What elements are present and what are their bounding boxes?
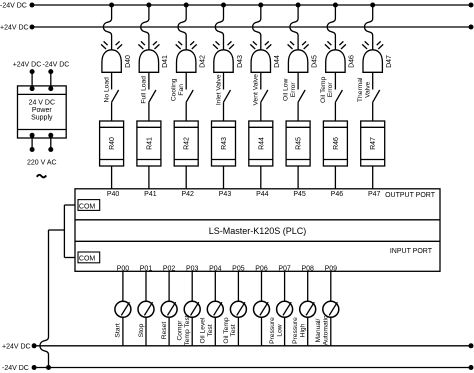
svg-text:P42: P42 [181, 191, 194, 198]
resistor R46 [323, 121, 347, 166]
svg-text:Low: Low [276, 324, 283, 336]
svg-text:Pressure: Pressure [292, 317, 299, 344]
wire: -24V rail to lamp D44, hops over +24V rail [253, 5, 261, 50]
node: -24V rail tap for D43 [221, 3, 226, 8]
svg-text:Cooling: Cooling [171, 78, 178, 101]
pushbutton S3: Compr Temp Test [177, 301, 201, 345]
svg-text:Oil Temp: Oil Temp [223, 317, 230, 344]
svg-text:R47: R47 [370, 137, 377, 150]
pin label P05 [232, 265, 245, 272]
svg-text:D40: D40 [125, 55, 132, 68]
pin label P41 [144, 191, 157, 198]
svg-text:No Load: No Load [103, 77, 110, 103]
svg-text:P04: P04 [209, 265, 222, 272]
lamp D46 [325, 41, 356, 72]
svg-text:Vent Valve: Vent Valve [253, 74, 260, 106]
wire: PLC pin P06 to pushbutton [261, 271, 263, 301]
switch: Oil Temp Error (NO contact) [320, 76, 343, 103]
node: -24V rail tap for D41 [146, 3, 151, 8]
wire: pushbutton to +24V rail [122, 317, 124, 346]
wire: switch to resistor R40 [111, 102, 113, 121]
resistor R47 [361, 121, 385, 166]
node: -24V rail tap for D42 [184, 3, 189, 8]
wire: COM (input) stub [64, 257, 75, 259]
svg-text:P43: P43 [219, 191, 232, 198]
wire: resistor R42 to PLC pin P42 [185, 166, 187, 189]
svg-text:R44: R44 [258, 137, 265, 150]
svg-text:Pressure: Pressure [269, 317, 276, 344]
PLC U1: LS-Master-K120S [75, 189, 440, 271]
pin label P42 [181, 191, 194, 198]
svg-text:Error: Error [290, 82, 297, 98]
wire: PLC pin P08 to pushbutton [307, 271, 309, 301]
wire: pushbutton to +24V rail [191, 317, 193, 346]
wire: PLC pin P03 to pushbutton [191, 271, 193, 301]
wire: switch to resistor R45 [297, 102, 299, 121]
svg-text:D42: D42 [200, 55, 207, 68]
svg-text:Stop: Stop [138, 323, 145, 337]
wire: -24V rail to lamp D46, hops over +24V rail [327, 5, 335, 50]
switch: Cooling Fan (NO contact) [171, 78, 194, 102]
svg-text:Inlet Valve: Inlet Valve [215, 74, 222, 105]
svg-text:Start: Start [115, 323, 122, 337]
svg-text:P44: P44 [256, 191, 269, 198]
wire: switch to resistor R41 [148, 102, 150, 121]
svg-text:Test: Test [230, 324, 237, 336]
svg-text:R42: R42 [184, 137, 191, 150]
pushbutton S2: Reset [161, 301, 177, 339]
wire: lamp D42 to switch [185, 72, 187, 89]
wire: resistor R45 to PLC pin P45 [297, 166, 299, 189]
wire: pushbutton to +24V rail [261, 317, 263, 346]
svg-text:Oil Low: Oil Low [283, 78, 290, 100]
svg-text:Reset: Reset [161, 322, 168, 340]
wire: COM bracket vertical [63, 205, 65, 258]
svg-text:P01: P01 [140, 265, 153, 272]
svg-text:P06: P06 [255, 265, 268, 272]
wire: pushbutton to +24V rail [168, 317, 170, 346]
wire: switch to resistor R46 [334, 102, 336, 121]
wire: pushbutton to +24V rail [145, 317, 147, 346]
svg-text:Power: Power [32, 107, 53, 114]
pushbutton S5: Oil Temp Test [223, 301, 247, 343]
resistor R45 [286, 121, 310, 166]
svg-text:Oil Temp: Oil Temp [320, 76, 327, 103]
net +24V DC (bottom rail) [2, 343, 474, 350]
pin label P40 [107, 191, 120, 198]
svg-text:220 V AC: 220 V AC [27, 160, 57, 167]
wire: PLC pin P07 to pushbutton [284, 271, 286, 301]
pushbutton S8: Pressure High [292, 301, 316, 344]
switch: Oil Low Error (NO contact) [283, 78, 306, 102]
svg-text:Supply: Supply [31, 114, 53, 121]
wire: resistor R47 to PLC pin P47 [372, 166, 374, 189]
wire: PLC pin P01 to pushbutton [145, 271, 147, 301]
wire: resistor R46 to PLC pin P46 [334, 166, 336, 189]
wire: pushbutton to +24V rail [214, 317, 216, 346]
wire: switch to resistor R42 [185, 102, 187, 121]
wire: switch to resistor R47 [372, 102, 374, 121]
net -24V DC (top rail) [0, 3, 474, 10]
label INPUT PORT [390, 248, 433, 255]
svg-text:Valve: Valve [365, 81, 372, 98]
lamp D42 [176, 41, 207, 72]
svg-text:Error: Error [327, 82, 334, 98]
svg-text:P45: P45 [293, 191, 306, 198]
pin label P08 [301, 265, 314, 272]
pin label P07 [278, 265, 291, 272]
pushbutton S4: Oil Level Test [200, 301, 224, 343]
wire: -24V rail to lamp D40, hops over +24V rail [103, 5, 111, 50]
svg-text:Fan: Fan [178, 84, 185, 96]
wire: lamp D47 to switch [372, 72, 374, 89]
svg-text:Oil Level: Oil Level [200, 317, 207, 344]
pin label P46 [331, 191, 344, 198]
wire: lamp D46 to switch [334, 72, 336, 89]
resistor R44 [249, 121, 273, 166]
net -24V DC (bottom rail) [2, 365, 474, 372]
lamp D44 [250, 41, 281, 72]
lamp D47 [362, 41, 393, 72]
pushbutton S9: Manual/ Automatic [315, 301, 339, 345]
switch: Thermal Valve (NO contact) [357, 77, 380, 102]
wire: -24V rail to lamp D47, hops over +24V rail [365, 5, 373, 50]
resistor R40 [100, 121, 124, 166]
svg-text:COM: COM [79, 256, 96, 263]
pin label P03 [186, 265, 199, 272]
wire: -24V rail to lamp D41, hops over +24V rail [141, 5, 149, 50]
svg-text:P47: P47 [368, 191, 381, 198]
wire: pushbutton to +24V rail [330, 317, 332, 346]
svg-text:D44: D44 [274, 55, 281, 68]
svg-text:Temp Test: Temp Test [184, 315, 191, 345]
wire: lamp D43 to switch [223, 72, 225, 89]
svg-text:LS-Master-K120S (PLC): LS-Master-K120S (PLC) [209, 226, 307, 236]
label OUTPUT PORT [385, 192, 436, 199]
svg-text:+24V DC: +24V DC [2, 343, 31, 350]
wire: resistor R44 to PLC pin P44 [260, 166, 262, 189]
svg-text:D41: D41 [162, 55, 169, 68]
lamp D45 [288, 41, 319, 72]
lamp D43 [213, 41, 244, 72]
svg-text:P07: P07 [278, 265, 291, 272]
svg-text:R45: R45 [296, 137, 303, 150]
pin label P47 [368, 191, 381, 198]
svg-text:Manual/: Manual/ [315, 318, 322, 342]
label LS-Master-K120S (PLC) [209, 226, 307, 236]
svg-text:-24V DC: -24V DC [2, 365, 29, 372]
svg-text:P46: P46 [331, 191, 344, 198]
terminal COM (output) [78, 200, 100, 211]
wire: lamp D44 to switch [260, 72, 262, 89]
svg-text:High: High [300, 323, 307, 337]
wire: lamp D40 to switch [111, 72, 113, 89]
svg-text:P03: P03 [186, 265, 199, 272]
svg-text:P08: P08 [301, 265, 314, 272]
svg-text:Thermal: Thermal [357, 77, 364, 102]
node: -24V rail tap for D45 [296, 3, 301, 8]
resistor R42 [174, 121, 198, 166]
wire: resistor R40 to PLC pin P40 [111, 166, 113, 189]
wire: -24V rail to lamp D42, hops over +24V rail [178, 5, 186, 50]
svg-text:R43: R43 [221, 137, 228, 150]
wire: PLC pin P00 to pushbutton [122, 271, 124, 301]
wire: PLC pin P05 to pushbutton [237, 271, 239, 301]
lamp D40 [101, 41, 132, 72]
pushbutton S6: P06 input [254, 301, 270, 317]
wire: -24V rail to lamp D45, hops over +24V rail [290, 5, 298, 50]
svg-text:Automatic: Automatic [323, 315, 330, 345]
pin label P02 [163, 265, 176, 272]
switch: Vent Valve (NO contact) [253, 74, 268, 106]
switch: Full Load (NO contact) [141, 76, 156, 104]
wire: PLC pin P04 to pushbutton [214, 271, 216, 301]
pushbutton S7: Pressure Low [269, 301, 293, 344]
lamp D41 [138, 41, 169, 72]
wire: pushbutton to +24V rail [284, 317, 286, 346]
svg-text:OUTPUT PORT: OUTPUT PORT [385, 192, 436, 199]
wire: resistor R41 to PLC pin P41 [148, 166, 150, 189]
power supply PS1 (24 V DC Power Supply) [13, 61, 70, 177]
svg-text:P40: P40 [107, 191, 120, 198]
wire: pushbutton to +24V rail [237, 317, 239, 346]
resistor R43 [212, 121, 236, 166]
svg-text:+24V DC: +24V DC [0, 25, 29, 32]
pushbutton S1: Stop [138, 301, 154, 337]
svg-text:P41: P41 [144, 191, 157, 198]
junction: COM wire to -24V rail [46, 365, 51, 370]
node: -24V rail tap for D47 [370, 3, 375, 8]
wire: resistor R43 to PLC pin P43 [223, 166, 225, 189]
svg-text:INPUT PORT: INPUT PORT [390, 248, 433, 255]
svg-text:P09: P09 [325, 265, 338, 272]
wire: lamp D45 to switch [297, 72, 299, 89]
svg-text:D46: D46 [349, 55, 356, 68]
svg-text:-24V DC: -24V DC [0, 3, 27, 10]
svg-text:P05: P05 [232, 265, 245, 272]
pin label P44 [256, 191, 269, 198]
svg-text:R46: R46 [333, 137, 340, 150]
wire: pushbutton to +24V rail [307, 317, 309, 346]
node: -24V rail tap for D46 [333, 3, 338, 8]
wire: switch to resistor R44 [260, 102, 262, 121]
svg-text:Full Load: Full Load [141, 76, 148, 104]
node: -24V rail tap for D44 [258, 3, 263, 8]
pin label P09 [325, 265, 338, 272]
wire: PLC pin P02 to pushbutton [168, 271, 170, 301]
svg-text:D45: D45 [311, 55, 318, 68]
wire: PLC pin P09 to pushbutton [330, 271, 332, 301]
pin label P06 [255, 265, 268, 272]
svg-text:Test: Test [207, 324, 214, 336]
pin label P01 [140, 265, 153, 272]
pin label P00 [117, 265, 130, 272]
net +24V DC (second top rail) [0, 25, 474, 32]
switch: No Load (NO contact) [103, 77, 118, 103]
svg-text:Compr: Compr [177, 320, 184, 341]
svg-text:+24V DC: +24V DC [13, 61, 42, 68]
wire: lamp D41 to switch [148, 72, 150, 89]
pin label P45 [293, 191, 306, 198]
svg-text:D43: D43 [237, 55, 244, 68]
svg-text:24 V DC: 24 V DC [29, 99, 55, 106]
wire: -24V rail to lamp D43, hops over +24V rail [215, 5, 223, 50]
svg-text:R40: R40 [109, 137, 116, 150]
pushbutton S0: Start [115, 301, 131, 337]
switch: Inlet Valve (NO contact) [215, 74, 230, 105]
wire: COM link to -24V DC, hops over bottom +24V rail [40, 230, 64, 368]
resistor R41 [137, 121, 161, 166]
svg-text:P00: P00 [117, 265, 130, 272]
pin label P04 [209, 265, 222, 272]
node: -24V rail tap for D40 [109, 3, 114, 8]
svg-text:R41: R41 [146, 137, 153, 150]
svg-text:P02: P02 [163, 265, 176, 272]
svg-text:D47: D47 [386, 55, 393, 68]
svg-text:-24V DC: -24V DC [43, 61, 70, 68]
AC symbol ~ [37, 175, 46, 178]
svg-text:COM: COM [79, 203, 96, 210]
terminal COM (input) [78, 252, 100, 263]
wire: COM (output) stub [64, 204, 75, 206]
wire: switch to resistor R43 [223, 102, 225, 121]
pin label P43 [219, 191, 232, 198]
